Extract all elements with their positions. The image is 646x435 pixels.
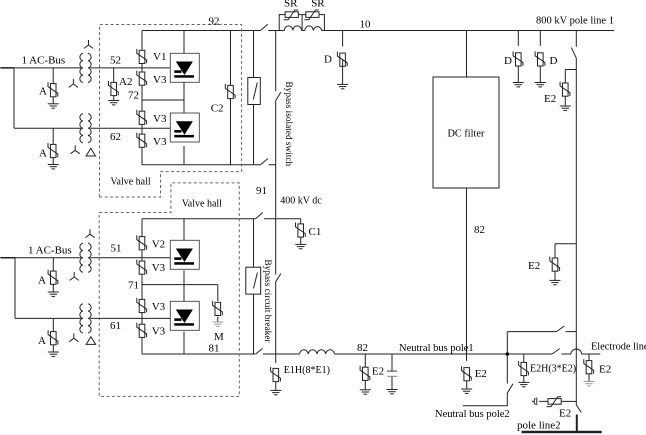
svg-text:91: 91 (256, 185, 267, 197)
svg-text:A: A (38, 335, 46, 347)
svg-text:10: 10 (360, 19, 372, 31)
svg-text:61: 61 (110, 320, 121, 332)
svg-text:E2: E2 (475, 368, 487, 380)
svg-text:92: 92 (209, 15, 220, 27)
svg-text:D: D (324, 54, 332, 66)
svg-text:SR: SR (284, 0, 298, 9)
svg-text:E2: E2 (372, 365, 384, 377)
svg-text:D: D (550, 55, 558, 67)
svg-text:V3: V3 (152, 262, 166, 274)
svg-text:V1: V1 (153, 51, 166, 63)
svg-text:A: A (39, 85, 47, 97)
svg-text:800 kV pole line 1: 800 kV pole line 1 (536, 16, 614, 27)
svg-text:SR: SR (311, 0, 325, 9)
svg-text:A: A (38, 274, 46, 286)
svg-text:V3: V3 (152, 301, 166, 313)
svg-text:E2: E2 (528, 260, 540, 272)
svg-text:52: 52 (110, 55, 121, 67)
svg-text:82: 82 (357, 342, 368, 354)
svg-text:V2: V2 (152, 239, 165, 251)
svg-text:C2: C2 (211, 103, 224, 115)
svg-text:V3: V3 (153, 74, 167, 86)
svg-text:51: 51 (111, 243, 122, 255)
svg-text:DC filter: DC filter (448, 129, 485, 140)
svg-text:A2: A2 (119, 76, 132, 88)
svg-text:Electrode line: Electrode line (591, 342, 646, 353)
svg-text:400 kV dc: 400 kV dc (280, 196, 322, 207)
svg-text:E2: E2 (599, 363, 611, 375)
svg-text:72: 72 (128, 90, 139, 102)
svg-text:pole line2: pole line2 (517, 420, 561, 432)
svg-text:1 AC-Bus: 1 AC-Bus (28, 244, 72, 256)
svg-text:Neutral bus pole1: Neutral bus pole1 (399, 343, 474, 354)
svg-text:E2: E2 (559, 407, 571, 419)
svg-text:71: 71 (128, 279, 139, 291)
svg-text:Bypass isolated switch: Bypass isolated switch (283, 82, 293, 167)
svg-text:E2: E2 (544, 93, 556, 105)
svg-text:V3: V3 (153, 113, 167, 125)
svg-text:82: 82 (474, 224, 485, 236)
svg-text:Neutral bus pole2: Neutral bus pole2 (435, 409, 510, 420)
svg-text:V3: V3 (152, 325, 166, 337)
svg-text:D: D (504, 55, 512, 67)
svg-text:M: M (214, 331, 224, 343)
svg-text:62: 62 (110, 131, 121, 143)
svg-text:Bypass circuit breaker: Bypass circuit breaker (262, 260, 272, 344)
svg-text:A: A (39, 147, 47, 159)
svg-text:81: 81 (209, 342, 220, 354)
svg-text:E2H(3*E2): E2H(3*E2) (530, 364, 576, 375)
svg-text:Valve hall: Valve hall (110, 177, 150, 188)
svg-text:C1: C1 (309, 226, 322, 238)
svg-text:Valve hall: Valve hall (182, 198, 222, 209)
svg-text:E1H(8*E1): E1H(8*E1) (284, 365, 330, 376)
svg-text:1 AC-Bus: 1 AC-Bus (22, 55, 66, 67)
svg-text:V3: V3 (153, 136, 167, 148)
